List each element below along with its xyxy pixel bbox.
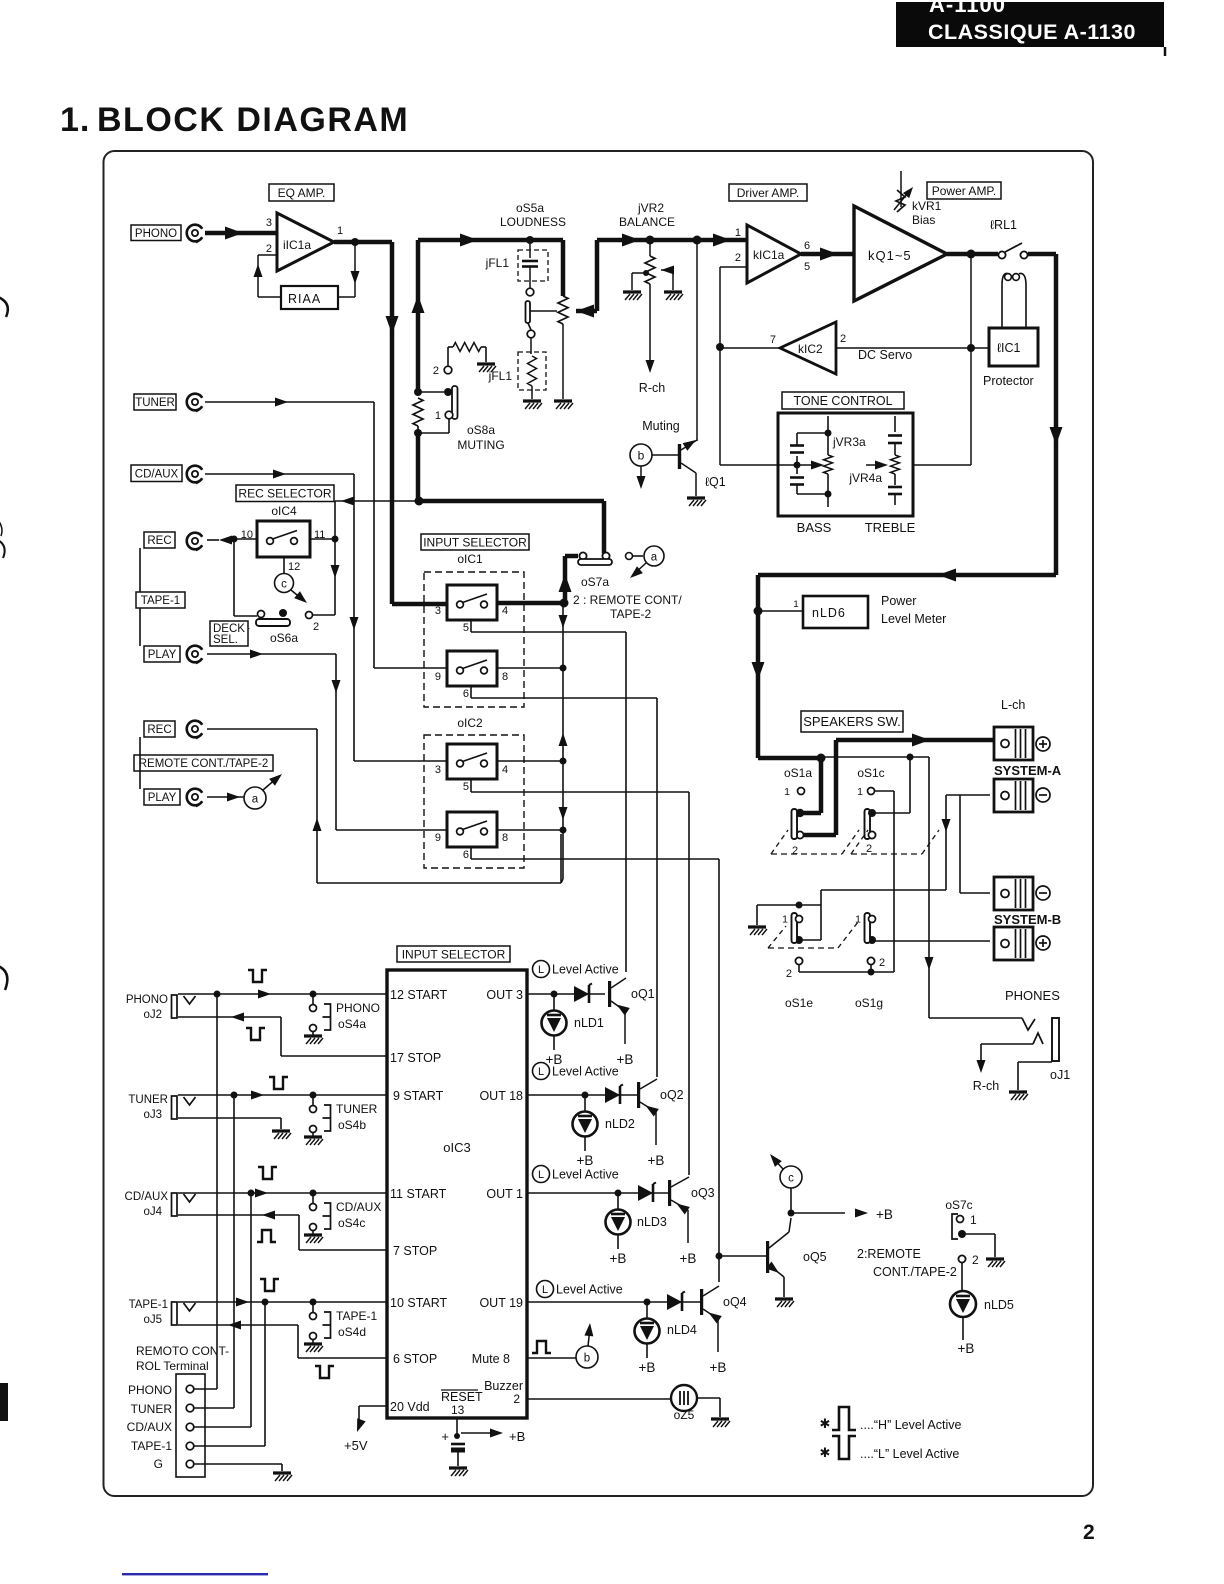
svg-text:oS4b: oS4b: [338, 1118, 366, 1132]
svg-text:ℓQ1: ℓQ1: [705, 475, 726, 489]
svg-text:1: 1: [793, 599, 798, 610]
svg-text:oS8a: oS8a: [467, 423, 495, 437]
svg-text:c: c: [281, 579, 287, 591]
svg-text:PLAY: PLAY: [148, 649, 177, 661]
svg-text:1.: 1.: [60, 101, 90, 139]
svg-text:2:REMOTE: 2:REMOTE: [857, 1247, 921, 1261]
svg-text:oQ3: oQ3: [691, 1186, 715, 1200]
svg-text:b: b: [584, 1353, 590, 1365]
svg-text:BALANCE: BALANCE: [619, 215, 675, 229]
svg-text:4: 4: [502, 605, 508, 617]
svg-text:BLOCK DIAGRAM: BLOCK DIAGRAM: [97, 101, 409, 139]
svg-text:A-1100: A-1100: [929, 0, 1006, 17]
svg-text:Muting: Muting: [642, 419, 680, 433]
svg-text:....“L” Level Active: ....“L” Level Active: [860, 1447, 959, 1461]
svg-text:8: 8: [502, 832, 508, 844]
svg-text:oJ1: oJ1: [1050, 1068, 1070, 1082]
svg-text:CLASSIQUE A-1130: CLASSIQUE A-1130: [928, 20, 1136, 44]
svg-text:CD/AUX: CD/AUX: [127, 1420, 172, 1434]
svg-text:INPUT SELECTOR: INPUT SELECTOR: [423, 535, 527, 549]
svg-text:nLD3: nLD3: [637, 1215, 667, 1229]
svg-text:2: 2: [266, 243, 272, 255]
svg-text:kVR1: kVR1: [912, 199, 942, 213]
svg-text:1: 1: [435, 410, 441, 422]
svg-text:LOUDNESS: LOUDNESS: [500, 215, 566, 229]
svg-text:2: 2: [840, 333, 846, 345]
svg-text:+B: +B: [577, 1153, 594, 1168]
svg-text:Buzzer: Buzzer: [484, 1379, 523, 1393]
svg-text:nLD6: nLD6: [812, 606, 846, 620]
svg-text:PHONO: PHONO: [128, 1383, 172, 1397]
svg-text:2: 2: [972, 1253, 979, 1267]
svg-text:b: b: [638, 449, 645, 463]
svg-text:oQ5: oQ5: [803, 1250, 827, 1264]
svg-text:oS7c: oS7c: [945, 1198, 972, 1212]
svg-text:CD/AUX: CD/AUX: [135, 468, 179, 480]
svg-text:PHONES: PHONES: [1005, 988, 1060, 1003]
svg-text:TONE CONTROL: TONE CONTROL: [793, 394, 892, 408]
svg-text:2: 2: [1083, 1521, 1095, 1544]
svg-text:ROL Terminal: ROL Terminal: [136, 1359, 209, 1373]
svg-text:R-ch: R-ch: [639, 381, 665, 395]
svg-text:1: 1: [970, 1213, 977, 1227]
svg-text:TAPE-1: TAPE-1: [129, 1299, 168, 1311]
svg-text:REC: REC: [147, 535, 171, 547]
svg-text:7: 7: [770, 334, 776, 346]
svg-text:PHONO: PHONO: [336, 1001, 380, 1015]
svg-text:ℓIC1: ℓIC1: [997, 341, 1021, 355]
svg-text:1: 1: [784, 786, 790, 798]
svg-text:+B: +B: [610, 1251, 627, 1266]
svg-text:PHONO: PHONO: [126, 994, 168, 1006]
svg-text:+B: +B: [680, 1251, 697, 1266]
svg-text:nLD1: nLD1: [574, 1016, 604, 1030]
svg-text:Level Meter: Level Meter: [881, 612, 946, 626]
svg-text:OUT 3: OUT 3: [486, 988, 523, 1002]
svg-text:SPEAKERS SW.: SPEAKERS SW.: [803, 714, 901, 729]
svg-text:jVR3a: jVR3a: [832, 435, 866, 449]
svg-text:6: 6: [804, 240, 810, 252]
svg-text:R-ch: R-ch: [973, 1079, 999, 1093]
svg-text:DC Servo: DC Servo: [858, 348, 912, 362]
svg-text:TUNER: TUNER: [135, 397, 175, 409]
svg-text:+B: +B: [876, 1207, 893, 1222]
svg-text:TREBLE: TREBLE: [865, 520, 916, 535]
svg-text:5: 5: [463, 622, 469, 634]
svg-text:4: 4: [502, 764, 508, 776]
svg-text:+B: +B: [648, 1153, 665, 1168]
svg-text:9 START: 9 START: [393, 1089, 444, 1103]
svg-text:TAPE-1: TAPE-1: [336, 1309, 377, 1323]
svg-text:OUT 19: OUT 19: [479, 1296, 523, 1310]
svg-text:Mute 8: Mute 8: [472, 1352, 510, 1366]
svg-text:REC: REC: [147, 724, 171, 736]
svg-text:✱: ✱: [820, 1416, 831, 1431]
svg-text:Bias: Bias: [912, 213, 935, 227]
svg-text:MUTING: MUTING: [457, 438, 504, 452]
svg-text:REMOTE CONT./TAPE-2: REMOTE CONT./TAPE-2: [139, 758, 269, 770]
svg-text:CD/AUX: CD/AUX: [125, 1191, 169, 1203]
svg-text:TAPE-1: TAPE-1: [131, 1439, 172, 1453]
svg-text:oZ5: oZ5: [674, 1408, 695, 1422]
svg-text:a: a: [651, 552, 658, 564]
svg-text:iIC1a: iIC1a: [283, 238, 311, 252]
svg-text:oIC3: oIC3: [443, 1140, 470, 1155]
svg-text:3: 3: [266, 217, 272, 229]
svg-text:RIAA: RIAA: [288, 292, 321, 306]
svg-text:oJ2: oJ2: [143, 1009, 162, 1021]
svg-text:oS4d: oS4d: [338, 1325, 366, 1339]
svg-text:oIC1: oIC1: [457, 552, 483, 566]
svg-text:oS1g: oS1g: [855, 996, 883, 1010]
svg-text:L: L: [538, 1169, 544, 1181]
svg-text:L: L: [538, 1066, 544, 1078]
svg-text:SYSTEM-A: SYSTEM-A: [994, 763, 1062, 778]
svg-text:6 STOP: 6 STOP: [393, 1352, 437, 1366]
svg-text:20 Vdd: 20 Vdd: [390, 1400, 430, 1414]
svg-text:3: 3: [435, 764, 441, 776]
svg-text:+: +: [441, 1429, 449, 1444]
svg-text:SYSTEM-B: SYSTEM-B: [994, 912, 1061, 927]
svg-text:+B: +B: [509, 1429, 525, 1444]
svg-text:oQ2: oQ2: [660, 1088, 684, 1102]
svg-text:OUT 18: OUT 18: [479, 1089, 523, 1103]
svg-text:Level Active: Level Active: [552, 963, 619, 977]
svg-text:1: 1: [337, 225, 343, 237]
svg-text:oJ3: oJ3: [143, 1109, 162, 1121]
svg-text:7 STOP: 7 STOP: [393, 1244, 437, 1258]
svg-text:PHONO: PHONO: [135, 228, 177, 240]
svg-text:2: 2: [513, 1392, 520, 1406]
svg-text:TUNER: TUNER: [131, 1402, 173, 1416]
svg-text:jFL1: jFL1: [485, 256, 510, 270]
svg-text:12 START: 12 START: [390, 988, 448, 1002]
svg-text:oS1a: oS1a: [784, 766, 812, 780]
svg-text:nLD4: nLD4: [667, 1323, 697, 1337]
svg-text:3: 3: [435, 605, 441, 617]
svg-text:REC SELECTOR: REC SELECTOR: [238, 487, 331, 501]
svg-text:RESET: RESET: [441, 1390, 483, 1404]
svg-text:....“H” Level Active: ....“H” Level Active: [860, 1418, 961, 1432]
svg-text:INPUT SELECTOR: INPUT SELECTOR: [402, 947, 506, 961]
svg-text:+5V: +5V: [344, 1438, 368, 1453]
svg-text:oS4c: oS4c: [338, 1216, 365, 1230]
svg-text:BASS: BASS: [797, 520, 832, 535]
svg-text:+B: +B: [617, 1052, 634, 1067]
svg-text:G: G: [154, 1457, 163, 1471]
svg-text:5: 5: [463, 781, 469, 793]
svg-text:oS1e: oS1e: [785, 996, 813, 1010]
svg-text:2: 2: [879, 957, 885, 969]
svg-text:Level Active: Level Active: [552, 1065, 619, 1079]
svg-text:✱: ✱: [820, 1445, 831, 1460]
svg-text:2: 2: [735, 252, 741, 264]
svg-text:oS1c: oS1c: [857, 766, 884, 780]
svg-text:nLD5: nLD5: [984, 1298, 1014, 1312]
svg-text:6: 6: [463, 688, 469, 700]
svg-text:17 STOP: 17 STOP: [390, 1051, 441, 1065]
svg-text:2 : REMOTE CONT/: 2 : REMOTE CONT/: [573, 593, 682, 607]
svg-text:oS7a: oS7a: [581, 575, 609, 589]
svg-text:12: 12: [288, 561, 300, 573]
svg-text:L: L: [538, 964, 544, 976]
svg-text:11 START: 11 START: [390, 1187, 447, 1201]
svg-text:+B: +B: [958, 1341, 975, 1356]
svg-text:6: 6: [463, 849, 469, 861]
svg-text:oIC4: oIC4: [271, 504, 297, 518]
svg-text:1: 1: [857, 786, 863, 798]
svg-text:2: 2: [792, 845, 798, 857]
svg-text:Level Active: Level Active: [556, 1283, 623, 1297]
svg-text:L: L: [542, 1284, 548, 1296]
svg-text:TUNER: TUNER: [336, 1102, 378, 1116]
svg-text:oJ5: oJ5: [143, 1314, 162, 1326]
svg-text:8: 8: [502, 671, 508, 683]
svg-text:SEL.: SEL.: [213, 634, 238, 646]
svg-text:Power AMP.: Power AMP.: [932, 184, 996, 198]
svg-text:Protector: Protector: [983, 374, 1034, 388]
svg-text:kIC2: kIC2: [798, 342, 823, 356]
svg-text:2: 2: [786, 968, 792, 980]
svg-text:oS4a: oS4a: [338, 1017, 366, 1031]
svg-text:REMOTO CONT-: REMOTO CONT-: [136, 1344, 229, 1358]
svg-text:nLD2: nLD2: [605, 1117, 635, 1131]
svg-text:L-ch: L-ch: [1001, 698, 1025, 712]
svg-text:Power: Power: [881, 594, 916, 608]
svg-text:TAPE-1: TAPE-1: [141, 595, 180, 607]
svg-text:5: 5: [804, 261, 810, 273]
svg-text:Driver AMP.: Driver AMP.: [737, 186, 799, 200]
svg-text:+B: +B: [639, 1360, 656, 1375]
svg-text:+B: +B: [710, 1360, 727, 1375]
svg-text:TUNER: TUNER: [128, 1094, 168, 1106]
svg-text:OUT 1: OUT 1: [486, 1187, 523, 1201]
svg-text:ℓRL1: ℓRL1: [990, 218, 1017, 232]
svg-text:oIC2: oIC2: [457, 716, 483, 730]
svg-text:1: 1: [782, 914, 788, 926]
svg-text:9: 9: [435, 671, 441, 683]
svg-text:kIC1a: kIC1a: [753, 248, 785, 262]
svg-text:oJ4: oJ4: [143, 1206, 162, 1218]
svg-text:EQ AMP.: EQ AMP.: [278, 186, 326, 200]
svg-text:Level Active: Level Active: [552, 1168, 619, 1182]
svg-text:13: 13: [451, 1403, 465, 1417]
svg-text:CD/AUX: CD/AUX: [336, 1200, 381, 1214]
svg-text:2: 2: [433, 365, 439, 377]
svg-text:9: 9: [435, 832, 441, 844]
svg-text:oS6a: oS6a: [270, 631, 298, 645]
svg-text:TAPE-2: TAPE-2: [610, 607, 651, 621]
svg-text:oQ1: oQ1: [631, 987, 655, 1001]
svg-text:2: 2: [866, 843, 872, 855]
svg-text:1: 1: [735, 227, 741, 239]
svg-text:jVR2: jVR2: [637, 201, 664, 215]
svg-text:2: 2: [313, 621, 319, 633]
svg-text:10 START: 10 START: [390, 1296, 448, 1310]
svg-text:oQ4: oQ4: [723, 1295, 747, 1309]
svg-text:c: c: [788, 1173, 794, 1185]
svg-text:a: a: [252, 794, 259, 806]
svg-text:PLAY: PLAY: [148, 792, 177, 804]
svg-text:jVR4a: jVR4a: [848, 471, 882, 485]
svg-text:kQ1~5: kQ1~5: [868, 248, 912, 263]
svg-text:oS5a: oS5a: [516, 201, 544, 215]
svg-text:CONT./TAPE-2: CONT./TAPE-2: [873, 1265, 957, 1279]
